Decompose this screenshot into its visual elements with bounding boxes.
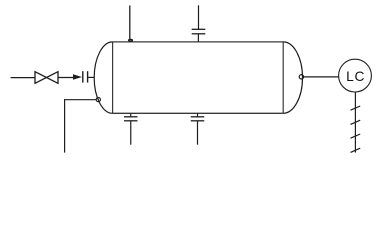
capillary hatch tick 1 — [351, 106, 361, 110]
drain nozzle circle on left head — [96, 98, 100, 102]
top nozzle N2 flange tick upper — [192, 28, 206, 30]
wire drain horizontal run — [65, 99, 97, 101]
capillary hatch tick 3 — [351, 134, 361, 138]
bottom nozzle N4 drop line — [197, 121, 199, 145]
top nozzle N2 riser line upper — [198, 5, 200, 29]
bottom nozzle N4 flange tick upper — [191, 116, 205, 118]
vessel left tangent seam — [112, 42, 114, 113]
bottom nozzle N4 stub from shell — [197, 113, 199, 117]
vessel right tangent seam — [282, 42, 284, 113]
top nozzle N1 flange ellipse — [129, 39, 133, 41]
wire level tap to instrument — [304, 76, 339, 78]
instrument bubble LC — [339, 59, 372, 92]
vessel shell top line — [113, 41, 284, 43]
flange tick pair at inlet nozzle — [82, 71, 84, 82]
svg-text:LC: LC — [346, 69, 365, 84]
top nozzle N2 flange tick lower — [192, 33, 206, 35]
vessel right elliptical head — [283, 42, 302, 113]
capillary hatch tick 2 — [351, 120, 361, 124]
flow arrow — [73, 74, 82, 80]
bottom nozzle N3 drop line — [130, 121, 132, 145]
wire inlet pipe left segment — [11, 77, 35, 79]
vessel left elliptical head — [94, 42, 112, 113]
top nozzle N2 stub to shell — [197, 34, 199, 42]
level nozzle circle on right head — [299, 75, 303, 79]
bottom nozzle N3 stub from shell — [130, 113, 132, 117]
vessel shell bottom line — [113, 112, 284, 114]
bottom nozzle N4 flange tick lower — [191, 120, 205, 122]
wire valve to arrow segment — [58, 77, 75, 79]
capillary hatch tick 4 — [351, 148, 361, 152]
bottom nozzle N3 flange tick upper — [124, 116, 138, 118]
wire flange to vessel head — [88, 76, 95, 78]
wire drain vertical drop — [64, 99, 66, 153]
top nozzle N1 riser line — [129, 6, 131, 40]
valve V1 (gate valve bowtie) — [35, 72, 58, 84]
capillary line below instrument — [354, 92, 356, 153]
bottom nozzle N3 flange tick lower — [124, 120, 138, 122]
